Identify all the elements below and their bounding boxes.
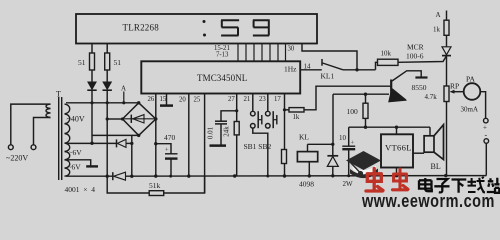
wire rail below 4.7k to bus <box>446 102 448 176</box>
wires SB common down to bus <box>253 128 268 176</box>
bottom bus wire <box>66 175 112 177</box>
svg-text:30mA: 30mA <box>461 106 479 114</box>
resistor unlabeled on pin17 column <box>282 150 287 164</box>
wire 143 line corner down to bus <box>131 143 133 176</box>
wire 10k to MCR gate <box>398 56 446 62</box>
wire mains to primary bottom <box>34 118 51 145</box>
svg-text:10k: 10k <box>381 50 392 58</box>
node dots on top lead <box>90 101 108 104</box>
emitter wire line <box>333 93 389 95</box>
IC U1 display driver TLR2268 box <box>76 14 317 44</box>
mains terminal circles ~220V <box>8 145 36 150</box>
wire pin21 to SB1 <box>252 94 254 112</box>
thyristor MCR 100-6 <box>442 47 451 86</box>
horizontal line 127 <box>349 126 430 128</box>
diode VD3 (in 143 line, pointing left) <box>117 139 132 147</box>
capacitor 10u electrolytic <box>342 127 355 176</box>
node dot 470 branch <box>154 142 157 145</box>
ground at pin15 <box>160 94 173 106</box>
watermark text dian (electric) <box>419 178 432 191</box>
diode VD1 (left column) <box>87 82 96 103</box>
svg-text:SB1 SB2: SB1 SB2 <box>244 142 272 151</box>
speaker BL <box>413 125 444 160</box>
svg-text:21: 21 <box>244 96 251 103</box>
wire R51 right to diode <box>106 70 108 82</box>
svg-text:51: 51 <box>78 58 86 67</box>
wire left column continues down <box>91 103 93 143</box>
svg-text:~6V: ~6V <box>68 163 82 172</box>
svg-text:17: 17 <box>274 96 281 103</box>
node A (left) <box>121 85 126 105</box>
svg-text:KL: KL <box>299 133 309 142</box>
svg-text:470: 470 <box>164 133 176 142</box>
potentiometer RP 4.7k <box>425 82 464 102</box>
svg-text:A: A <box>121 85 126 93</box>
node dot pin27 branch <box>235 109 238 112</box>
relay coil KL <box>297 133 317 176</box>
switch KL1 <box>300 59 375 70</box>
wire A down to 1k <box>446 11 448 21</box>
svg-text:+: + <box>351 140 355 147</box>
node dot KL1 output <box>355 68 358 71</box>
svg-text:A: A <box>436 11 441 19</box>
node dot pin17 branch <box>283 108 286 111</box>
diode VD2 (right column) <box>103 82 112 90</box>
wire pin20 down to bus <box>188 94 190 177</box>
watermark text zhan (station) <box>487 178 500 193</box>
diode 4098 <box>327 144 338 176</box>
capacitor C 470 electrolytic <box>165 154 178 176</box>
bus wire right end up to minus <box>447 175 487 177</box>
svg-text:TLR2268: TLR2268 <box>123 23 160 33</box>
svg-text:20: 20 <box>179 97 186 104</box>
watermark text zi (child) <box>434 179 449 192</box>
wire pin25 down to 51k loop <box>204 94 206 194</box>
svg-text:7-13: 7-13 <box>216 52 229 59</box>
svg-text:4.7k: 4.7k <box>425 93 438 101</box>
node dot col1 on 143 line <box>90 142 93 145</box>
svg-text:26: 26 <box>148 96 155 103</box>
resistor R 51 (right) <box>105 53 122 70</box>
resistor 100 <box>347 94 369 127</box>
svg-text:www.eeworm.com: www.eeworm.com <box>361 190 495 209</box>
display digit 5 <box>221 20 239 35</box>
bridge inner diode <box>124 115 155 123</box>
svg-text:PA: PA <box>466 75 475 84</box>
svg-text:100-6: 100-6 <box>406 52 424 61</box>
svg-text:4098: 4098 <box>299 180 314 189</box>
watermark graduation cap icon <box>346 151 381 178</box>
svg-text:MCR: MCR <box>407 43 424 52</box>
svg-text:30: 30 <box>288 46 295 53</box>
wire 1k to MCR <box>446 35 448 47</box>
wire PA to plus terminal <box>480 92 485 119</box>
wire branch to cap 0.01 <box>221 111 237 121</box>
watermark url www.eeworm.com <box>361 190 495 211</box>
push button SB1 <box>251 111 262 128</box>
wire secondary top lead to bridge <box>66 102 139 104</box>
svg-text:25: 25 <box>194 97 201 104</box>
wire pin17 column <box>284 94 286 177</box>
IC U2 TMC3450NL box <box>141 61 300 93</box>
meter PA <box>461 75 481 114</box>
watermark red character chong 2 <box>393 169 409 190</box>
resistor R 51 (left) <box>78 53 95 70</box>
bridge vertex node dots <box>121 101 158 137</box>
svg-text:2W: 2W <box>343 180 354 188</box>
wire right column down to bus <box>106 90 108 176</box>
svg-text:~220V: ~220V <box>6 154 28 163</box>
svg-text:4001 × 4: 4001 × 4 <box>65 185 96 194</box>
svg-text:VT66L: VT66L <box>385 143 412 153</box>
wire 6V tap line to diode VD3 <box>66 142 117 144</box>
diode VD4 (in bus, pointing left) <box>113 172 126 180</box>
transformer primary winding <box>46 104 51 117</box>
transformer secondary 6V winding a <box>65 143 70 160</box>
watermark text zai (load) <box>468 177 486 193</box>
center tap wire and ground bar <box>67 160 98 167</box>
svg-text:~40V: ~40V <box>67 115 85 124</box>
node dot at 131.8,143.4 <box>130 142 133 145</box>
svg-text:RP: RP <box>450 82 459 91</box>
bridge rectifier diamond <box>123 103 156 136</box>
wire R51 left to diode <box>91 70 93 82</box>
wire bridge right vertex down <box>155 119 157 176</box>
bus node dots <box>106 174 448 178</box>
wire stub 135 line down to 143 line <box>131 135 133 143</box>
wire from display box to R51 right <box>106 44 108 53</box>
resistor 1k horizontal <box>285 108 305 121</box>
wire pin30 to KL1 node <box>302 44 357 70</box>
svg-text:1Hz: 1Hz <box>284 65 297 74</box>
terminal minus <box>484 131 489 176</box>
wire relay top to diode column <box>308 143 333 145</box>
node dot col2 at 119 <box>106 117 109 120</box>
resistor 24k on pin27 column <box>234 122 239 135</box>
wire branch to cap 470 <box>156 144 171 154</box>
svg-text:23: 23 <box>259 96 266 103</box>
wire pin27 column <box>236 94 238 177</box>
svg-text:51k: 51k <box>149 181 161 190</box>
resistor 51k loop <box>107 176 204 196</box>
svg-text:TMC3450NL: TMC3450NL <box>197 73 247 83</box>
svg-text:24k: 24k <box>223 126 231 137</box>
wire mains to primary top <box>11 104 51 145</box>
transformer secondary 6V winding b <box>65 160 70 176</box>
svg-text:10: 10 <box>339 134 347 142</box>
push button SB2 <box>266 111 277 128</box>
svg-text:0.01: 0.01 <box>207 126 215 139</box>
transistor 8550 <box>389 71 428 102</box>
svg-text:~6V: ~6V <box>69 148 83 157</box>
svg-text:100: 100 <box>347 107 359 116</box>
svg-text:51: 51 <box>114 58 122 67</box>
wire riser emitter line to relay <box>332 94 334 144</box>
display digit 9 <box>253 20 270 35</box>
wire from display box to R51 left <box>91 44 93 53</box>
svg-text:1k: 1k <box>433 26 441 34</box>
node dot relay/diode <box>331 143 334 146</box>
wire pin26 to bridge right vertex <box>155 94 157 120</box>
svg-text:KL1: KL1 <box>321 72 335 81</box>
wire bridge left vertex to column2 <box>107 118 122 120</box>
capacitor C 0.01 <box>210 121 228 145</box>
transformer core <box>59 97 62 180</box>
svg-text:8550: 8550 <box>412 83 427 92</box>
terminal plus <box>483 118 488 131</box>
bottom bus wire continues <box>126 175 447 178</box>
transformer secondary 40V winding <box>65 104 70 143</box>
svg-text:BL: BL <box>431 162 441 171</box>
node dots on 127 line <box>364 126 398 129</box>
resistor 10k <box>376 50 399 70</box>
display colon dots <box>203 20 207 37</box>
wire bridge bottom vertex left <box>92 134 139 136</box>
wire pin23 to SB2 <box>267 94 269 112</box>
segment bus wires between ICs <box>238 44 286 62</box>
svg-text:1k: 1k <box>293 114 300 121</box>
svg-text:+: + <box>165 147 169 154</box>
IC VT66L box <box>381 127 413 176</box>
svg-text:27: 27 <box>228 96 235 103</box>
watermark red character chong 1 <box>366 169 383 192</box>
wire 1k to base riser <box>304 86 391 110</box>
resistor 1k (right) <box>433 20 449 35</box>
node dot 100 top <box>364 93 367 96</box>
watermark text xia (down) <box>452 180 467 193</box>
